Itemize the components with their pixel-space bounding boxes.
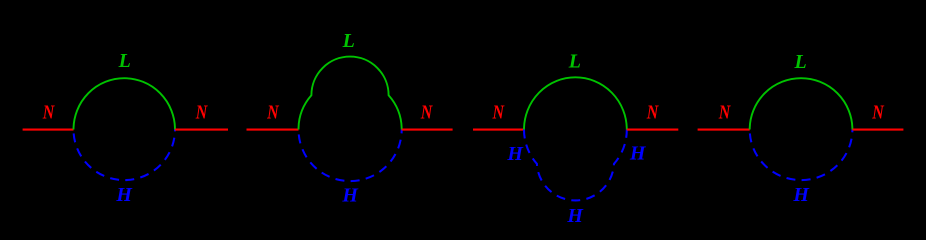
svg-text:N: N [195, 101, 208, 123]
svg-text:N: N [718, 101, 731, 123]
svg-text:N: N [492, 101, 505, 123]
wire N left (D1) [23, 129, 74, 131]
lepton loop L arc (D3) [524, 77, 627, 129]
wire N left (D2) [247, 129, 299, 131]
lepton loop L arcs with top bubble (D2) [298, 57, 401, 130]
svg-text:L: L [793, 51, 806, 73]
wire N left (D4) [698, 129, 750, 131]
svg-text:N: N [646, 101, 659, 123]
svg-text:N: N [420, 101, 433, 123]
svg-text:H: H [341, 185, 359, 207]
svg-text:N: N [871, 101, 884, 123]
wire N right (D4) [852, 129, 903, 131]
higgs dashed arc H (D1) [74, 130, 176, 181]
svg-text:H: H [115, 184, 133, 206]
higgs dashed arc H (D4) [750, 130, 853, 181]
wire N right (D2) [402, 129, 453, 131]
svg-text:N: N [266, 101, 279, 123]
wire N right (D3) [627, 129, 679, 131]
svg-text:L: L [342, 30, 355, 52]
svg-text:H: H [506, 143, 524, 165]
wire N right (D1) [175, 129, 228, 131]
wire N left (D3) [473, 129, 524, 131]
svg-text:H: H [792, 184, 810, 206]
svg-text:L: L [568, 51, 581, 73]
lepton loop L arc (D4) [750, 78, 853, 129]
lepton loop L arc (D1) [74, 78, 176, 129]
higgs dashed arcs with bottom bubble (D3) [524, 130, 627, 201]
svg-text:N: N [42, 101, 55, 123]
higgs dashed arc H (D2) [299, 130, 402, 182]
svg-text:H: H [629, 143, 647, 165]
svg-text:H: H [566, 205, 584, 227]
svg-text:L: L [118, 50, 131, 72]
